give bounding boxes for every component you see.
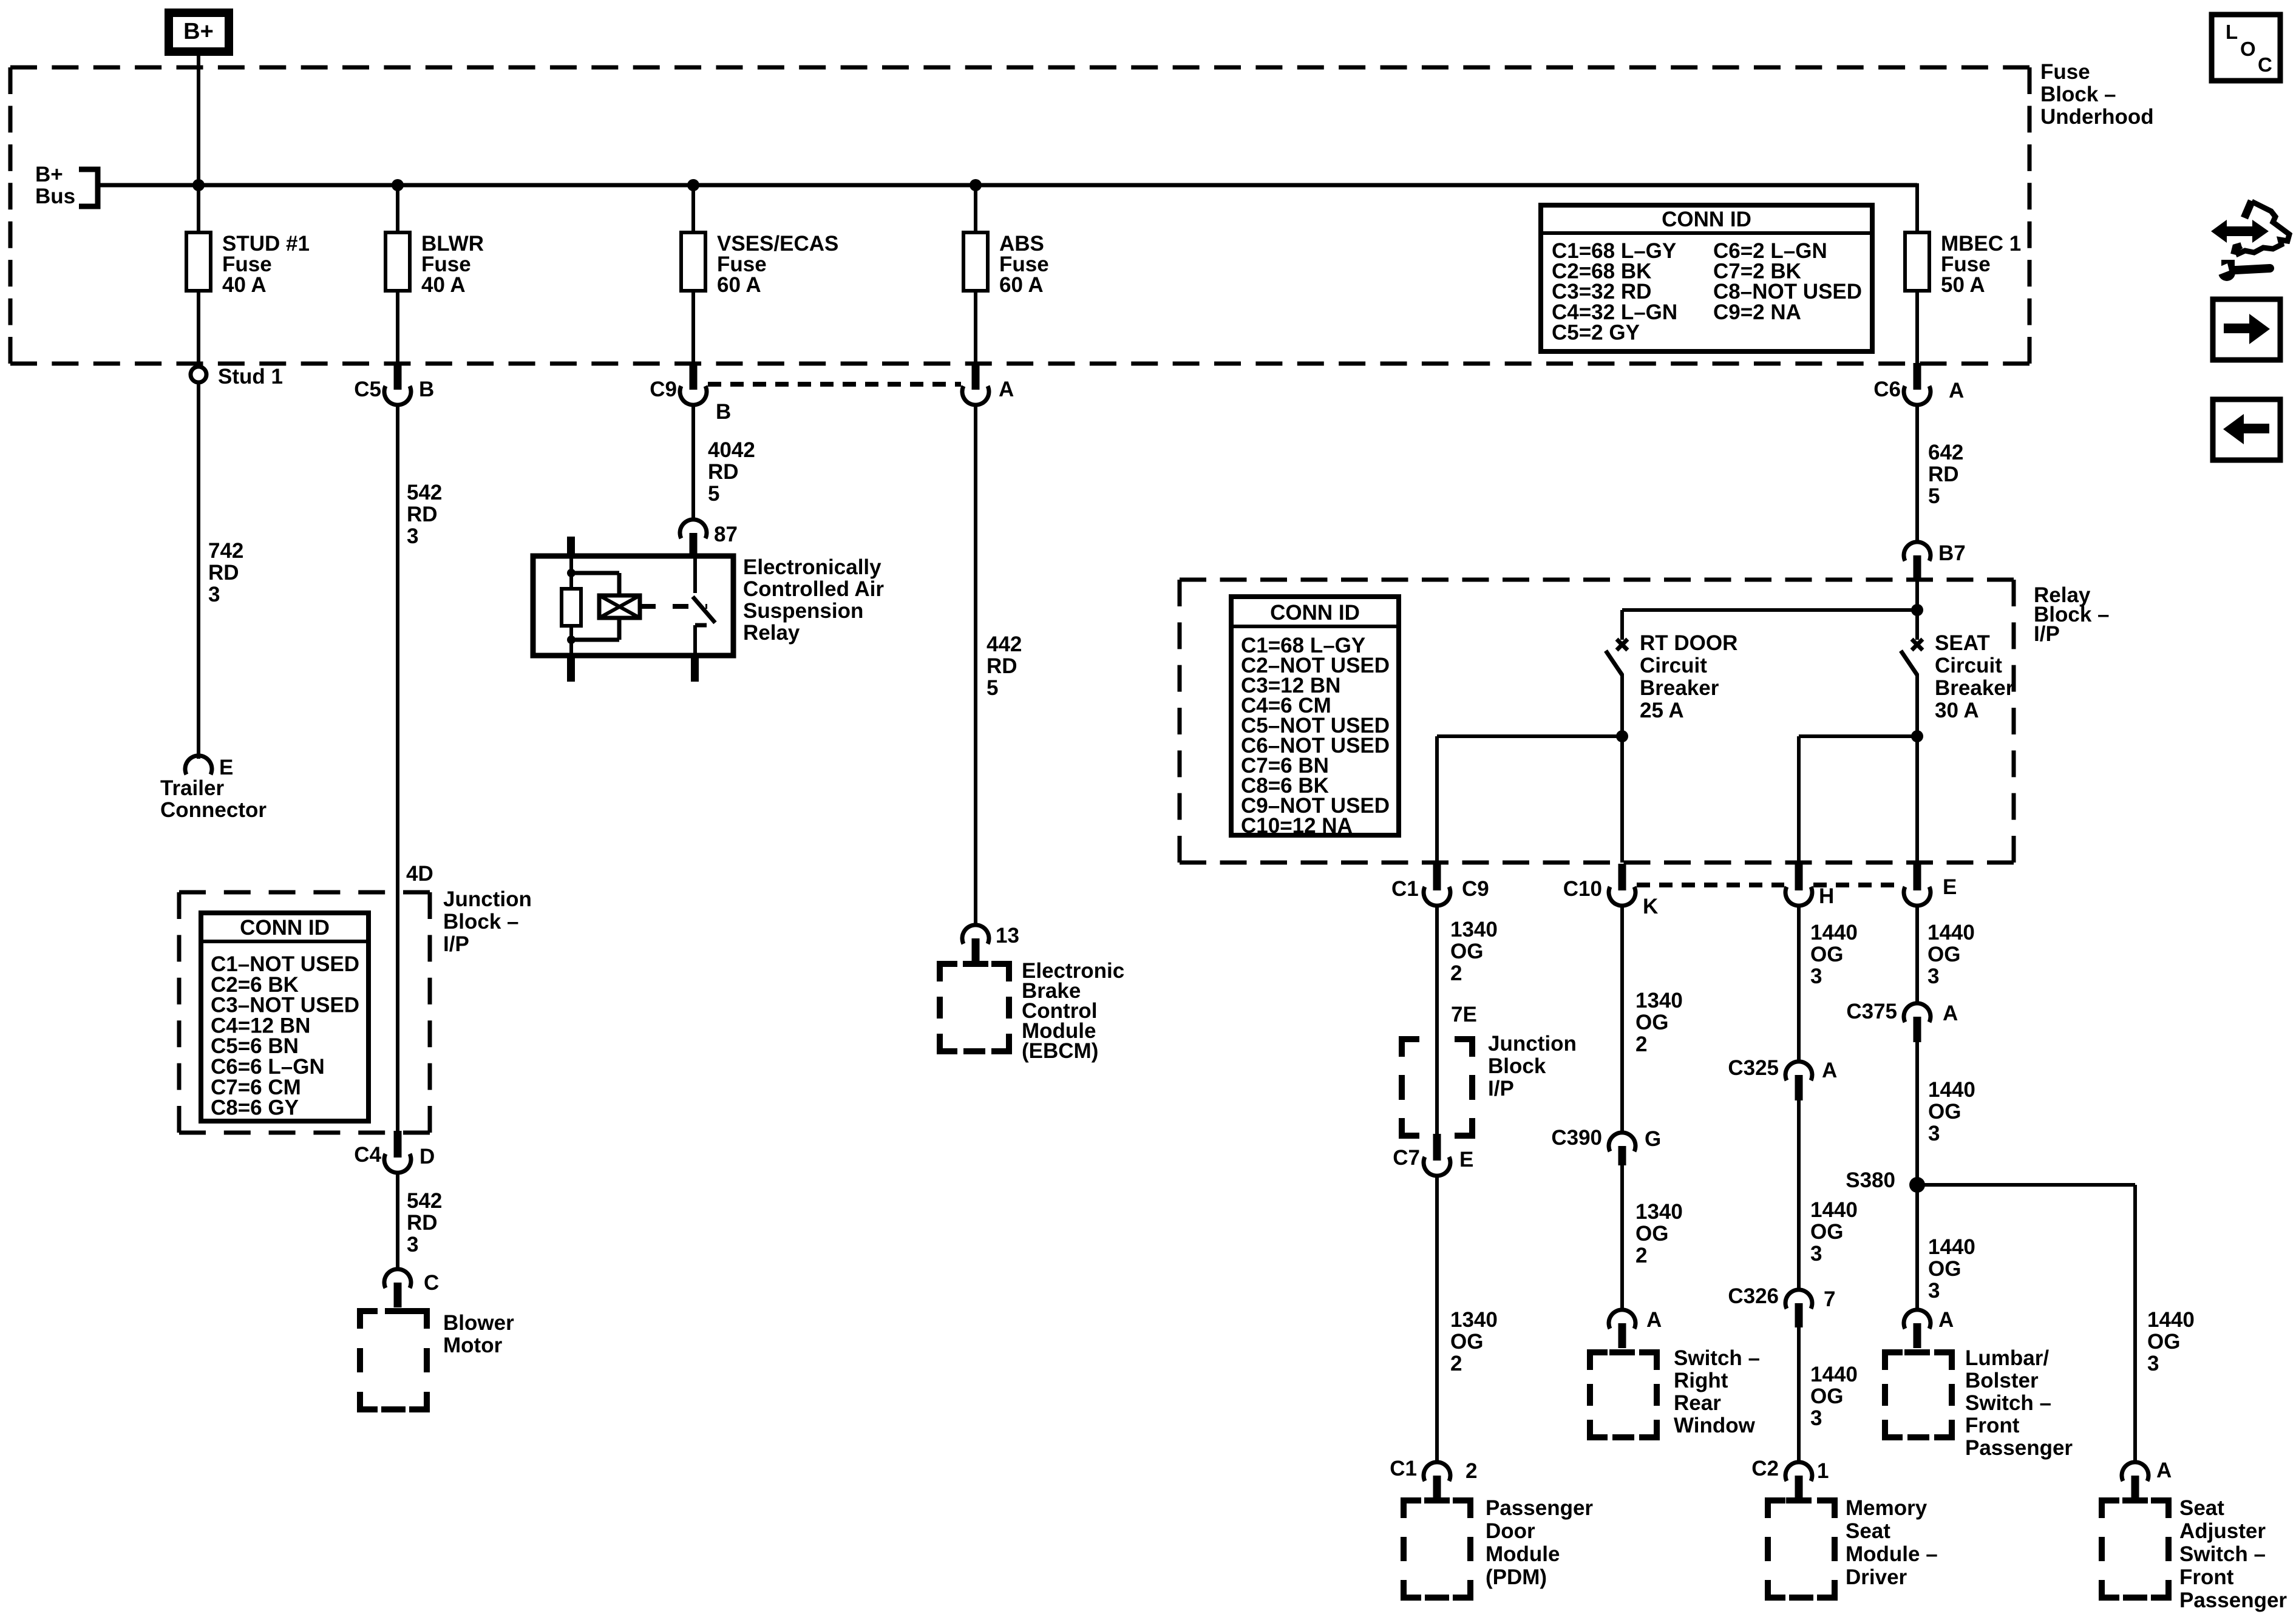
connector C326 pin 7 (1728, 1284, 1835, 1327)
svg-text:RD: RD (1928, 463, 1959, 486)
svg-text:C375: C375 (1846, 1000, 1897, 1023)
value label wire 1440 OG 3 H lower (1810, 1363, 1858, 1430)
value label fuse F5 MBEC 1 (1941, 232, 2021, 297)
node bus tap abs (970, 179, 982, 191)
module Memory Seat Module - Driver (1765, 1497, 1838, 1601)
fuse F4 ABS (963, 232, 988, 291)
connector C2 pin 1 memory seat module (1751, 1457, 1829, 1498)
svg-text:50 A: 50 A (1941, 273, 1985, 297)
svg-text:RD: RD (407, 1211, 438, 1235)
svg-text:13: 13 (996, 924, 1019, 947)
icon harness wrench (2211, 201, 2289, 281)
svg-text:Passenger: Passenger (1965, 1436, 2073, 1460)
connector C390 pin G (1551, 1126, 1661, 1165)
svg-text:Breaker: Breaker (1935, 676, 2014, 700)
svg-text:C9=2 NA: C9=2 NA (1713, 300, 1801, 324)
power symbol B+ (169, 13, 229, 52)
value label wire 542 RD 3 upper (407, 481, 442, 548)
svg-text:4D: 4D (406, 862, 433, 886)
value label wire 1340 OG 2 mid (1635, 989, 1683, 1056)
svg-text:A: A (999, 378, 1014, 401)
svg-text:O: O (2240, 38, 2256, 60)
connector C1 pin C9 (1391, 864, 1489, 906)
fuse F3 VSES/ECAS (681, 232, 705, 291)
svg-text:Junction: Junction (443, 887, 532, 911)
module Electronic Brake Control Module EBCM (937, 961, 1012, 1054)
wire feed across to RT DOOR breaker (1622, 608, 1917, 612)
label Junction Block I/P small (1488, 1032, 1577, 1100)
svg-text:1440: 1440 (1927, 921, 1975, 944)
svg-text:Bus: Bus (35, 185, 75, 208)
wire 1440 OG 3 C326 to memory seat module (1797, 1327, 1801, 1462)
value label wire 1340 OG 2 first (1450, 918, 1498, 985)
svg-text:3: 3 (1810, 1406, 1822, 1430)
module Lumbar Bolster Switch - Front Passenger (1882, 1349, 1955, 1440)
wire 542 RD 3 C5 to junction block (396, 404, 399, 1134)
connector C4 pin D (354, 1131, 435, 1173)
fuse F1 STUD #1 (186, 232, 211, 291)
svg-text:Connector: Connector (160, 798, 267, 822)
value label wire 1440 OG 3 branch (2147, 1308, 2195, 1375)
svg-text:D: D (419, 1145, 435, 1168)
svg-text:L: L (2226, 21, 2238, 43)
svg-text:3: 3 (407, 524, 418, 548)
wire B+ bus (98, 183, 1917, 188)
svg-text:C5: C5 (354, 378, 381, 401)
svg-text:87: 87 (714, 523, 738, 546)
svg-text:C6: C6 (1873, 378, 1901, 401)
wire through junction block (1435, 1036, 1439, 1136)
node bus tap stud1 (192, 179, 205, 191)
wire feed down to RT DOOR breaker (1620, 610, 1624, 640)
svg-text:Junction: Junction (1488, 1032, 1577, 1056)
svg-text:Front: Front (1965, 1414, 2020, 1437)
label Passenger Door Module PDM (1486, 1496, 1593, 1589)
svg-text:I/P: I/P (1488, 1077, 1514, 1100)
connector C5 pin B (354, 363, 434, 405)
icon arrow left box (2213, 399, 2280, 460)
circuit breaker SEAT 30 A (1901, 639, 1923, 736)
svg-text:Door: Door (1486, 1519, 1535, 1543)
icon arrow right box (2213, 299, 2280, 360)
svg-text:B: B (419, 378, 434, 401)
value label wire 1440 OG 3 H mid (1810, 1198, 1858, 1266)
label B+ Bus (35, 163, 75, 208)
svg-text:C9: C9 (1462, 877, 1489, 901)
svg-text:25 A: 25 A (1640, 699, 1684, 722)
wire dashed connector link C10 to E (1637, 883, 1903, 887)
node feed junction at SEAT breaker (1911, 604, 1923, 616)
svg-text:7E: 7E (1451, 1003, 1477, 1026)
label Memory Seat Module - Driver (1846, 1496, 1938, 1589)
wire 1440 OG 3 C325 to C326 (1797, 1100, 1801, 1290)
connector C blower motor (384, 1269, 439, 1307)
svg-text:A: A (2156, 1459, 2172, 1482)
svg-text:60 A: 60 A (999, 273, 1044, 297)
svg-text:2: 2 (1450, 961, 1462, 985)
node splice S380 (1846, 1168, 1925, 1193)
svg-text:Seat: Seat (2179, 1496, 2224, 1520)
svg-text:Bolster: Bolster (1965, 1369, 2039, 1392)
svg-text:Module –: Module – (1846, 1542, 1938, 1566)
value label fuse F2 BLWR (421, 232, 484, 297)
svg-text:Front: Front (2179, 1565, 2234, 1589)
svg-text:7: 7 (1824, 1287, 1835, 1311)
svg-text:OG: OG (1450, 940, 1483, 963)
svg-text:3: 3 (2147, 1352, 2159, 1375)
svg-text:3: 3 (1928, 1279, 1940, 1303)
svg-text:Module: Module (1486, 1542, 1560, 1566)
svg-text:3: 3 (1810, 964, 1822, 988)
svg-text:Block –: Block – (443, 910, 519, 934)
label SEAT Circuit Breaker 30 A (1935, 631, 2014, 722)
svg-text:2: 2 (1635, 1032, 1647, 1056)
svg-text:K: K (1643, 895, 1658, 918)
svg-text:5: 5 (708, 482, 719, 506)
label Blower Motor (443, 1311, 514, 1357)
value label wire 1440 OG 3 E upper (1927, 921, 1975, 988)
svg-text:1440: 1440 (2147, 1308, 2195, 1332)
value label wire 1440 OG 3 E mid (1928, 1078, 1975, 1145)
svg-text:(EBCM): (EBCM) (1022, 1039, 1098, 1063)
svg-text:2: 2 (1466, 1459, 1477, 1483)
node bus tap blwr (392, 179, 404, 191)
svg-text:OG: OG (1928, 1100, 1961, 1124)
svg-text:C5=2 GY: C5=2 GY (1552, 320, 1640, 344)
svg-text:1440: 1440 (1810, 1363, 1858, 1386)
wire 542 RD 3 C4 to blower (396, 1171, 399, 1269)
label Junction Block - I/P left (443, 887, 532, 956)
circuit breaker RT DOOR 25 A (1606, 639, 1628, 736)
svg-text:OG: OG (1450, 1330, 1483, 1354)
svg-text:OG: OG (1635, 1011, 1668, 1034)
label Relay Block - I/P (2034, 583, 2110, 646)
svg-text:CONN ID: CONN ID (1662, 208, 1751, 231)
svg-text:Passenger: Passenger (1486, 1496, 1593, 1520)
svg-text:C390: C390 (1551, 1126, 1602, 1150)
wire feed to fuse F1 STUD #1 (197, 185, 200, 232)
table CONN ID relay block (1231, 597, 1399, 838)
svg-text:1440: 1440 (1928, 1078, 1975, 1102)
connector C6 pin A (1873, 363, 1964, 405)
relay K1 Electronically Controlled Air Suspension Relay (533, 537, 733, 682)
svg-text:Breaker: Breaker (1640, 676, 1719, 700)
svg-text:S380: S380 (1846, 1168, 1895, 1192)
svg-text:5: 5 (1928, 484, 1940, 508)
svg-text:C8=6 GY: C8=6 GY (211, 1096, 299, 1120)
value label wire 4042 RD 5 (708, 438, 755, 506)
connector 87 relay terminal (680, 520, 738, 557)
connector E trailer (185, 756, 233, 779)
svg-text:(PDM): (PDM) (1486, 1565, 1547, 1589)
svg-text:A: A (1943, 1002, 1958, 1025)
svg-text:30 A: 30 A (1935, 699, 1979, 722)
svg-text:1340: 1340 (1450, 1308, 1498, 1332)
connector B7 relay block (1904, 541, 1966, 581)
wire 1440 OG 3 C375 to S380 (1915, 1042, 1919, 1310)
svg-text:OG: OG (1810, 943, 1843, 966)
value label wire 642 RD 5 (1928, 441, 1963, 508)
connector A at ABS drop (962, 363, 1014, 405)
wire 1440 OG 3 E to C375 (1915, 906, 1919, 1003)
bracket B+ Bus (79, 169, 98, 206)
connector C9 pin B (650, 363, 731, 424)
wire 4042 RD 5 C9 to relay (691, 404, 695, 520)
svg-text:Controlled Air: Controlled Air (743, 577, 884, 601)
node RT DOOR output junction (1616, 730, 1628, 742)
svg-text:RD: RD (208, 561, 239, 585)
svg-text:C: C (424, 1271, 439, 1295)
svg-text:CONN ID: CONN ID (1270, 601, 1360, 625)
svg-text:3: 3 (1928, 1122, 1940, 1145)
svg-text:Rear: Rear (1674, 1391, 1721, 1415)
svg-text:Circuit: Circuit (1640, 654, 1707, 677)
value label wire 542 RD 3 lower (407, 1189, 442, 1256)
connector C7 pin E (1393, 1134, 1473, 1176)
svg-text:1: 1 (1817, 1459, 1829, 1483)
svg-text:Underhood: Underhood (2040, 105, 2154, 129)
svg-text:E: E (1459, 1148, 1473, 1171)
label 4D terminal (406, 862, 433, 886)
module Seat Adjuster Switch - Front Passenger (2099, 1497, 2172, 1601)
svg-text:40 A: 40 A (222, 273, 267, 297)
table CONN ID fuse block underhood (1541, 205, 1872, 351)
block Junction Block I/P small (1399, 1036, 1475, 1139)
wire SEAT output to H (1799, 736, 1917, 863)
value label fuse F3 VSES/ECAS (717, 232, 838, 297)
svg-text:I/P: I/P (443, 932, 469, 956)
svg-text:60 A: 60 A (717, 273, 761, 297)
svg-text:Trailer: Trailer (160, 776, 224, 800)
svg-text:Relay: Relay (743, 621, 800, 645)
svg-text:C9: C9 (650, 378, 677, 401)
svg-text:OG: OG (2147, 1330, 2180, 1354)
svg-text:RD: RD (407, 503, 438, 526)
table CONN ID junction block left (201, 913, 369, 1121)
svg-text:I/P: I/P (2034, 622, 2060, 646)
node bus tap vses (687, 179, 699, 191)
connector pin E relay block (1904, 864, 1957, 906)
label Seat Adjuster Switch - Front Passenger (2179, 1496, 2287, 1612)
block Fuse Block - Underhood (10, 67, 2029, 364)
wire 1340 OG 2 C1 to junction block ip (1435, 906, 1439, 1036)
wire fuse F3 VSES/ECAS to block edge (691, 291, 695, 365)
svg-text:1440: 1440 (1810, 1198, 1858, 1222)
wire fuse F4 ABS to block edge (974, 291, 977, 365)
svg-text:2: 2 (1635, 1244, 1647, 1267)
svg-text:5: 5 (987, 676, 998, 700)
svg-text:Memory: Memory (1846, 1496, 1927, 1520)
svg-text:Switch –: Switch – (1674, 1346, 1760, 1370)
connector C10 pin K (1563, 864, 1659, 918)
svg-text:3: 3 (407, 1233, 418, 1256)
svg-text:B7: B7 (1938, 541, 1966, 565)
svg-text:Fuse: Fuse (2040, 60, 2090, 84)
wire B+ feed (197, 56, 200, 185)
node SEAT output junction (1911, 730, 1923, 742)
svg-text:Block –: Block – (2040, 83, 2116, 106)
svg-text:Switch –: Switch – (1965, 1391, 2051, 1415)
svg-text:C4: C4 (354, 1143, 381, 1167)
connector C325 pin A (1728, 1056, 1837, 1100)
svg-text:Passenger: Passenger (2179, 1588, 2287, 1612)
svg-text:C326: C326 (1728, 1284, 1779, 1308)
svg-text:2: 2 (1450, 1352, 1462, 1375)
connector C375 pin A (1846, 1000, 1958, 1042)
svg-text:1440: 1440 (1928, 1235, 1975, 1259)
svg-text:40 A: 40 A (421, 273, 466, 297)
connector pin H (1785, 864, 1834, 908)
svg-text:Stud 1: Stud 1 (218, 365, 283, 388)
label Fuse Block - Underhood (2040, 60, 2154, 129)
svg-text:B: B (716, 400, 731, 424)
svg-text:RD: RD (987, 654, 1017, 678)
svg-text:C10: C10 (1563, 877, 1602, 901)
value label wire 1340 OG 2 lower left (1450, 1308, 1498, 1375)
wire S380 branch to seat adjuster switch (1917, 1185, 2135, 1462)
wire feed to fuse F3 VSES/ECAS (691, 185, 695, 232)
svg-text:1340: 1340 (1635, 989, 1683, 1012)
svg-text:B+: B+ (35, 163, 63, 186)
wire 442 RD 5 A to EBCM (974, 404, 977, 925)
connector C1 pin 2 PDM (1390, 1457, 1477, 1498)
label Trailer Connector (160, 776, 267, 822)
svg-text:C1: C1 (1391, 877, 1419, 901)
svg-text:Suspension: Suspension (743, 599, 863, 623)
svg-text:742: 742 (208, 539, 243, 563)
svg-text:Right: Right (1674, 1369, 1728, 1392)
svg-text:Blower: Blower (443, 1311, 514, 1335)
label Switch - Right Rear Window (1674, 1346, 1760, 1437)
svg-text:Adjuster: Adjuster (2179, 1519, 2266, 1543)
label Electronic Brake Control Module EBCM (1022, 959, 1124, 1063)
svg-text:3: 3 (1927, 964, 1939, 988)
svg-text:442: 442 (987, 632, 1022, 656)
svg-text:3: 3 (1810, 1242, 1822, 1266)
svg-text:A: A (1949, 379, 1964, 402)
value label wire 742 RD 3 (208, 539, 243, 606)
wire 1340 OG 2 C390 to window switch (1620, 1165, 1624, 1310)
svg-text:RT DOOR: RT DOOR (1640, 631, 1737, 655)
connector pin A window switch (1609, 1308, 1662, 1348)
svg-text:C: C (2258, 53, 2272, 76)
svg-text:Lumbar/: Lumbar/ (1965, 1346, 2049, 1370)
svg-text:OG: OG (1810, 1220, 1843, 1244)
wire feed to fuse F2 BLWR (396, 185, 399, 232)
svg-text:Window: Window (1674, 1414, 1756, 1437)
svg-text:C2: C2 (1751, 1457, 1779, 1480)
value label wire 1440 OG 3 H upper (1810, 921, 1858, 988)
svg-text:Circuit: Circuit (1935, 654, 2002, 677)
label 7E terminal (1451, 1003, 1477, 1026)
svg-text:1340: 1340 (1450, 918, 1498, 941)
wire RT DOOR output to C10 (1620, 736, 1624, 863)
value label fuse F1 STUD #1 (222, 232, 310, 297)
svg-text:A: A (1646, 1308, 1662, 1332)
block Relay Block - I/P (1180, 580, 2014, 863)
wire MBEC fuse to block edge (1915, 291, 1919, 365)
value label wire 1440 OG 3 below S380 (1928, 1235, 1975, 1303)
module Passenger Door Module PDM (1401, 1497, 1473, 1601)
value label fuse F4 ABS (999, 232, 1049, 297)
wire bus corner down to MBEC 1 fuse (1915, 183, 1919, 232)
svg-text:Driver: Driver (1846, 1565, 1907, 1589)
wire 1440 OG 3 H to C325 (1797, 906, 1801, 1062)
svg-text:H: H (1819, 884, 1834, 908)
wire 742 RD 3 stud1 to trailer connector (197, 382, 200, 759)
wire SEAT output to E (1915, 736, 1919, 863)
svg-text:A: A (1822, 1059, 1837, 1082)
wire 642 RD 5 C6 to B7 (1915, 404, 1919, 542)
svg-text:Electronically: Electronically (743, 555, 881, 579)
label RT DOOR Circuit Breaker 25 A (1640, 631, 1737, 722)
svg-text:Seat: Seat (1846, 1519, 1890, 1543)
wire fuse F1 STUD #1 to block edge (197, 291, 200, 365)
connector pin 13 EBCM (962, 924, 1019, 961)
svg-text:Block: Block (1488, 1054, 1546, 1078)
svg-text:C7: C7 (1393, 1146, 1420, 1170)
svg-text:542: 542 (407, 1189, 442, 1213)
svg-text:G: G (1645, 1127, 1661, 1151)
wire 1340 OG 2 C7 to PDM (1435, 1175, 1439, 1462)
value label wire 442 RD 5 (987, 632, 1022, 700)
svg-text:SEAT: SEAT (1935, 631, 1990, 655)
label Electronically Controlled Air Suspension Relay (743, 555, 884, 645)
svg-text:542: 542 (407, 481, 442, 504)
block Junction Block - I/P left (179, 892, 430, 1133)
svg-text:1440: 1440 (1810, 921, 1858, 944)
connector pin A seat adjuster switch (2122, 1459, 2172, 1498)
wire fuse F2 BLWR to block edge (396, 291, 399, 365)
svg-text:C10=12 NA: C10=12 NA (1241, 814, 1353, 838)
svg-text:4042: 4042 (708, 438, 755, 462)
module Blower Motor (357, 1308, 430, 1412)
svg-text:3: 3 (208, 583, 220, 606)
value label wire 1340 OG 2 lowest (1635, 1200, 1683, 1267)
svg-text:OG: OG (1927, 943, 1960, 966)
svg-text:OG: OG (1928, 1257, 1961, 1281)
wire RT DOOR output to C1 (1437, 736, 1622, 863)
svg-text:RD: RD (708, 460, 739, 484)
svg-text:1340: 1340 (1635, 1200, 1683, 1224)
svg-text:Motor: Motor (443, 1334, 503, 1357)
label Lumbar Bolster Switch - Front Passenger (1965, 1346, 2073, 1460)
svg-text:C325: C325 (1728, 1056, 1779, 1080)
svg-text:A: A (1938, 1308, 1954, 1332)
wire feed to fuse F4 ABS (974, 185, 977, 232)
fuse F2 BLWR (385, 232, 410, 291)
svg-text:OG: OG (1635, 1222, 1668, 1246)
wire B7 into relay block (1915, 580, 1919, 640)
svg-text:CONN ID: CONN ID (240, 916, 330, 940)
icon LOC box (2212, 15, 2280, 81)
connector Stud 1 (191, 365, 283, 388)
module Switch - Right Rear Window (1587, 1349, 1660, 1440)
wire 1340 OG 2 C10 to C390 (1620, 906, 1624, 1133)
svg-text:642: 642 (1928, 441, 1963, 464)
fuse F5 MBEC 1 (1905, 232, 1929, 291)
svg-text:E: E (1943, 875, 1957, 899)
connector pin A lumbar bolster switch (1904, 1308, 1954, 1348)
wire dashed connector link C9 to A (708, 382, 961, 387)
svg-text:C1: C1 (1390, 1457, 1417, 1480)
svg-text:B+: B+ (183, 19, 214, 44)
svg-text:Switch –: Switch – (2179, 1542, 2266, 1566)
svg-text:OG: OG (1810, 1385, 1843, 1408)
